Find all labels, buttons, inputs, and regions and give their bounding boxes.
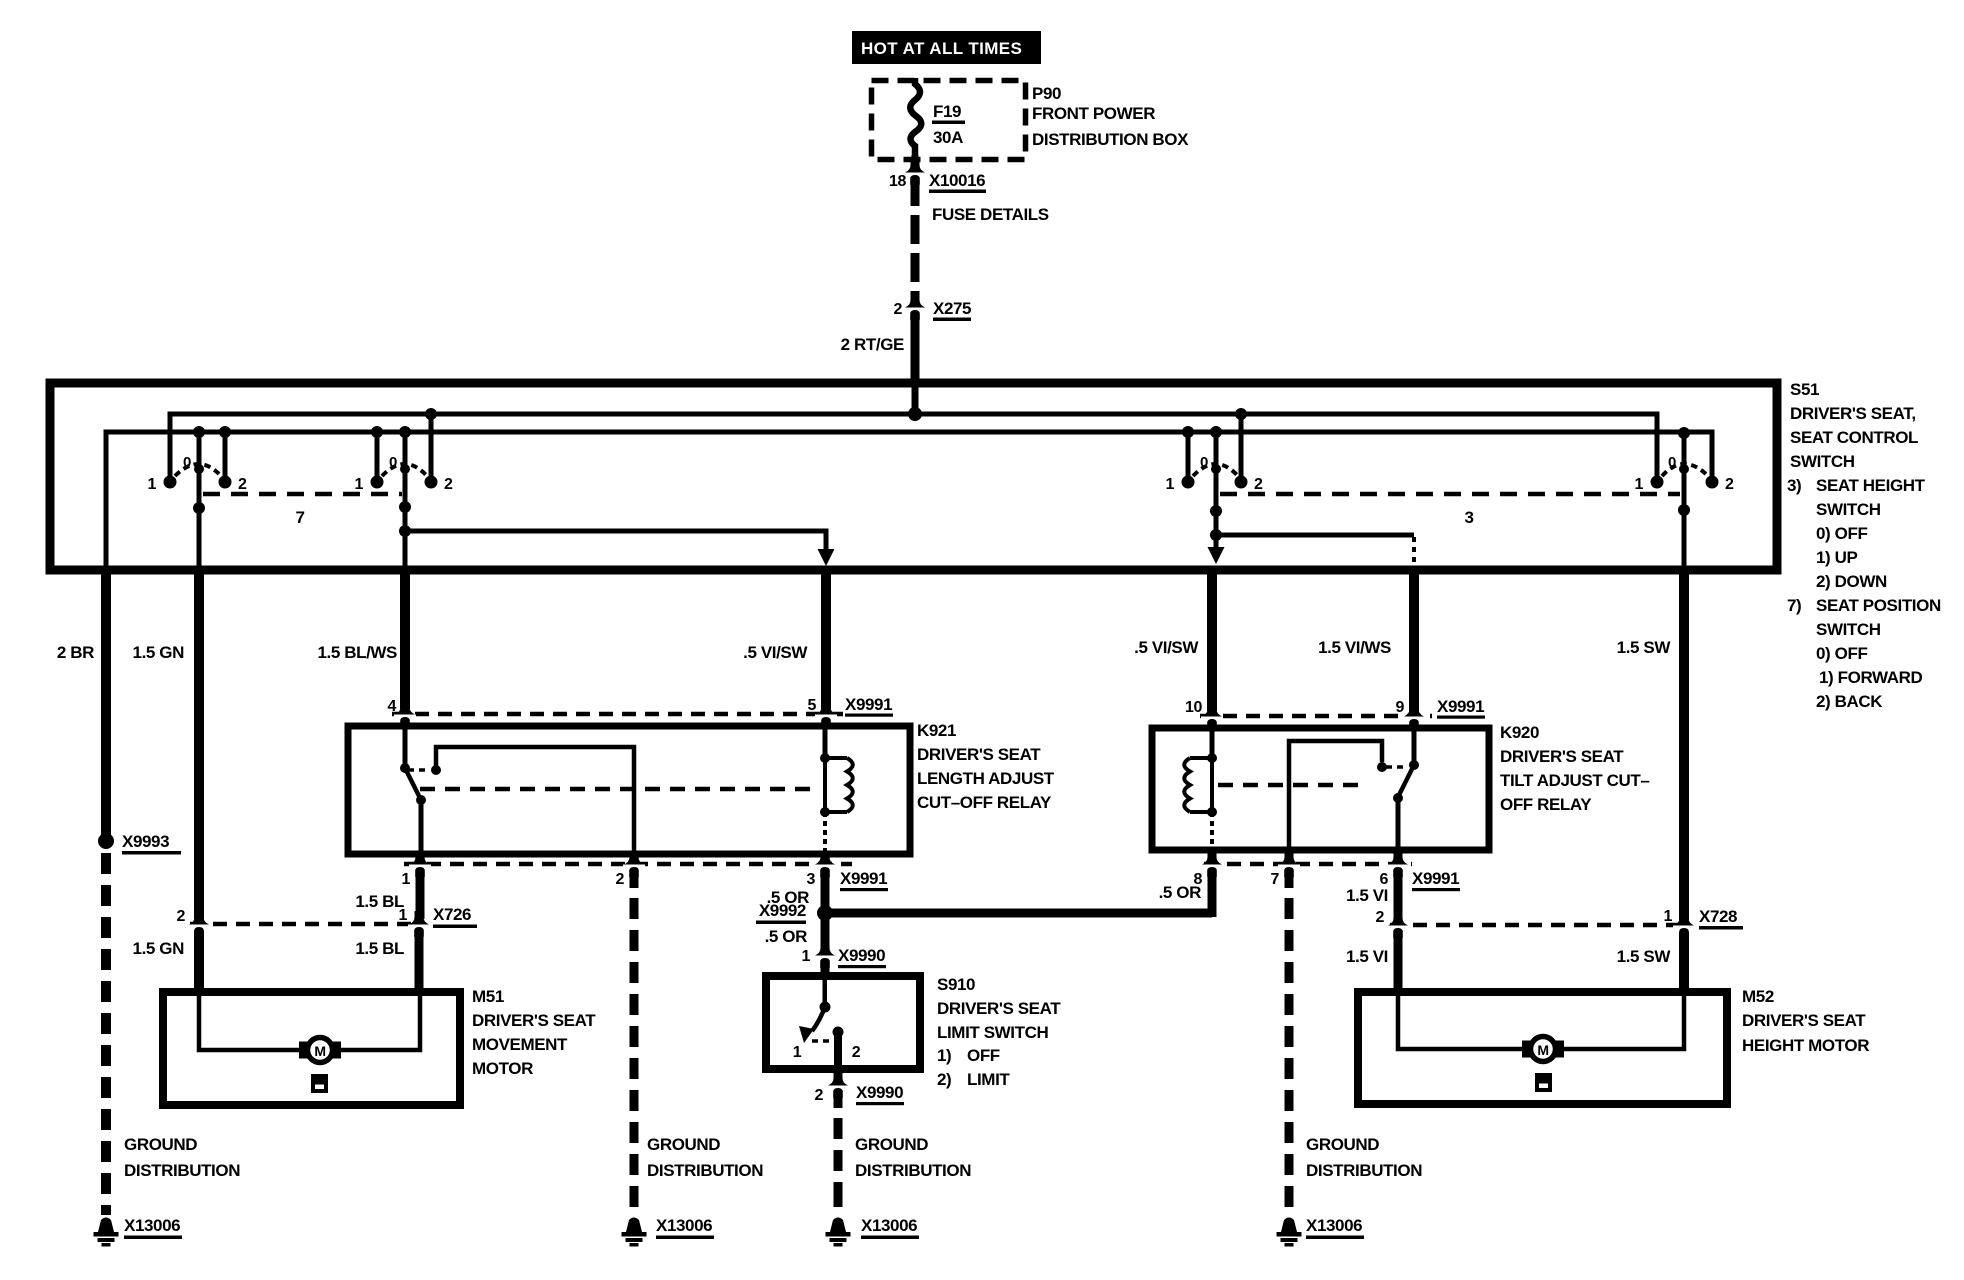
svg-text:X9991: X9991	[1412, 869, 1459, 888]
node below pivot	[193, 502, 205, 514]
svg-text:DRIVER'S SEAT: DRIVER'S SEAT	[472, 1011, 596, 1030]
wire .5 VI/SW (S51 to K920 pin 10)	[1207, 570, 1217, 711]
M52 internal wiring	[1398, 996, 1524, 1049]
svg-text:1: 1	[355, 476, 364, 493]
svg-text:2: 2	[815, 1087, 824, 1104]
wire: X10016 to X275 (dashed power feed)	[911, 177, 920, 206]
svg-text:1: 1	[1664, 908, 1673, 925]
motor M52 symbol	[1522, 1041, 1533, 1058]
wire: link to 1.5 VI/WS exit	[1216, 533, 1414, 538]
contact 2 dot	[1706, 476, 1719, 489]
svg-text:X9993: X9993	[122, 832, 169, 851]
switch S51/3 right half (seat height)	[1635, 427, 1735, 566]
svg-text:30A: 30A	[933, 128, 963, 147]
svg-text:1.5 VI: 1.5 VI	[1346, 886, 1388, 905]
connector X9993 (butt connector)	[98, 833, 114, 849]
switch S910 box	[766, 976, 920, 1069]
pin 3	[814, 851, 836, 877]
svg-text:1.5 VI: 1.5 VI	[1346, 947, 1388, 966]
contact 2 wire	[429, 414, 434, 482]
svg-text:1: 1	[399, 907, 408, 924]
svg-text:1.5 BL: 1.5 BL	[355, 892, 404, 911]
wire 1.5 BL (pin1 to X726)	[416, 874, 425, 919]
mechanical link (relay)	[420, 787, 816, 792]
svg-text:2) DOWN: 2) DOWN	[1816, 572, 1887, 591]
relay switch (NC contact)	[403, 729, 408, 768]
svg-text:0: 0	[1668, 454, 1676, 471]
svg-text:FRONT POWER: FRONT POWER	[1032, 104, 1155, 123]
svg-text:1): 1)	[937, 1046, 951, 1065]
pin 1	[1673, 912, 1695, 938]
motor M51 drive symbol	[311, 1074, 328, 1093]
pin 10	[1201, 703, 1223, 729]
fixed contact to pin 2	[408, 768, 428, 772]
motor M51 symbol	[299, 1042, 310, 1059]
svg-text:M52: M52	[1742, 987, 1774, 1006]
svg-text:DRIVER'S SEAT,: DRIVER'S SEAT,	[1790, 404, 1916, 423]
svg-text:X13006: X13006	[124, 1216, 180, 1235]
svg-text:7: 7	[1271, 871, 1280, 888]
svg-text:X9991: X9991	[845, 695, 892, 714]
svg-text:0: 0	[389, 454, 397, 471]
contact 2 wire	[1239, 414, 1244, 482]
svg-text:DISTRIBUTION BOX: DISTRIBUTION BOX	[1032, 130, 1189, 149]
pin 2	[623, 851, 645, 877]
svg-text:1) FORWARD: 1) FORWARD	[1819, 668, 1922, 687]
svg-text:DISTRIBUTION: DISTRIBUTION	[124, 1161, 240, 1180]
svg-text:GROUND: GROUND	[647, 1135, 720, 1154]
pin 1	[408, 911, 430, 937]
contact 1 dot	[1651, 476, 1664, 489]
wire 1.5 SW (X728 to M52)	[1679, 932, 1689, 992]
svg-text:SWITCH: SWITCH	[1790, 452, 1855, 471]
svg-text:LIMIT SWITCH: LIMIT SWITCH	[937, 1023, 1048, 1042]
wire: S910 to ground (dashed)	[834, 1092, 843, 1207]
connector X9990 pin 2	[834, 1069, 843, 1081]
switch throw arc	[382, 464, 427, 476]
pivot wire	[403, 432, 408, 566]
ground X13006 (K920 pin7)	[1277, 1218, 1302, 1247]
label block S51 DRIVER'S SEAT SEAT CONTROL SWITCH	[1787, 380, 1941, 711]
svg-text:SEAT CONTROL: SEAT CONTROL	[1790, 428, 1918, 447]
relay switch (NC contact)	[1412, 731, 1417, 765]
connector X9991 (top, K921)	[392, 712, 846, 717]
contact 1 dot	[164, 476, 177, 489]
wire .5 OR (X9992 to K920 pin 8)	[825, 909, 1212, 918]
contact 1 wire	[375, 432, 380, 482]
wire 1.5 BL (X726 to M51)	[415, 931, 424, 992]
svg-text:X9990: X9990	[838, 946, 885, 965]
switch unit S51 box	[50, 383, 1777, 570]
fuse box P90 (dashed)	[872, 81, 1026, 160]
ground X13006 (S910)	[826, 1218, 851, 1247]
label block K920	[1500, 723, 1649, 814]
svg-text:DRIVER'S SEAT: DRIVER'S SEAT	[937, 999, 1061, 1018]
svg-text:S51: S51	[1790, 380, 1819, 399]
svg-text:1: 1	[793, 1044, 802, 1061]
ground X13006 (2 BR)	[94, 1218, 119, 1247]
svg-text:2: 2	[894, 301, 903, 318]
svg-text:DRIVER'S SEAT: DRIVER'S SEAT	[1500, 747, 1624, 766]
mechanical coupling 7	[203, 492, 402, 497]
switch throw arc	[175, 464, 221, 476]
svg-text:X9992: X9992	[759, 901, 806, 920]
svg-text:3): 3)	[1787, 476, 1801, 495]
pin 2	[188, 911, 210, 937]
motor M52 drive symbol	[1535, 1073, 1552, 1092]
svg-text:0: 0	[1200, 454, 1208, 471]
ground X13006 (K921 pin2)	[622, 1218, 647, 1247]
svg-text:1.5 BL/WS: 1.5 BL/WS	[317, 643, 397, 662]
svg-text:0) OFF: 0) OFF	[1816, 644, 1867, 663]
svg-text:2: 2	[852, 1044, 861, 1061]
svg-text:9: 9	[1396, 699, 1405, 716]
label block M52	[1742, 987, 1869, 1055]
svg-text:2: 2	[238, 476, 247, 493]
svg-text:1.5 GN: 1.5 GN	[133, 643, 185, 662]
switch S51/7 left half (seat position)	[148, 426, 248, 566]
svg-text:HEIGHT MOTOR: HEIGHT MOTOR	[1742, 1036, 1869, 1055]
contact 1 wire	[1186, 432, 1191, 482]
connector X9991 (bottom, K920)	[1204, 862, 1412, 867]
node below pivot	[1678, 504, 1690, 516]
svg-text:.5 OR: .5 OR	[1159, 883, 1202, 902]
pin 4	[394, 701, 416, 727]
svg-text:1.5 GN: 1.5 GN	[133, 939, 185, 958]
svg-text:X9990: X9990	[856, 1083, 903, 1102]
svg-text:.5 OR: .5 OR	[765, 927, 808, 946]
svg-text:2: 2	[1376, 909, 1385, 926]
mechanical link (relay)	[1218, 783, 1366, 788]
contact 2 wire	[223, 432, 228, 482]
pin 8	[1201, 851, 1223, 877]
connector X9991 (bottom, K921)	[404, 862, 852, 867]
wire 1.5 GN (S51 to X726)	[194, 570, 204, 919]
svg-text:10: 10	[1185, 699, 1202, 716]
connector X726	[190, 922, 424, 927]
svg-text:1: 1	[148, 476, 157, 493]
wire 1.5 VI (X728 to M52)	[1394, 932, 1403, 992]
svg-text:4: 4	[388, 698, 397, 715]
svg-text:5: 5	[808, 697, 817, 714]
svg-text:.5 VI/SW: .5 VI/SW	[1134, 638, 1199, 657]
wire: fuse to X10016	[912, 155, 919, 166]
svg-text:CUT–OFF RELAY: CUT–OFF RELAY	[917, 793, 1052, 812]
connector X9990 pin 1	[814, 942, 836, 968]
svg-text:2: 2	[444, 476, 453, 493]
svg-text:SEAT POSITION: SEAT POSITION	[1816, 596, 1941, 615]
svg-text:SWITCH: SWITCH	[1816, 620, 1881, 639]
wire .5 OR (pin8 down to X9992 link)	[1208, 874, 1217, 917]
svg-text:X13006: X13006	[656, 1216, 712, 1235]
pivot wire	[1682, 432, 1687, 566]
svg-text:0) OFF: 0) OFF	[1816, 524, 1867, 543]
svg-text:GROUND: GROUND	[855, 1135, 928, 1154]
pin 5	[815, 701, 837, 727]
wire .5 OR (X9992 to X9990)	[821, 913, 830, 950]
svg-text:F19: F19	[933, 102, 961, 121]
svg-text:DRIVER'S SEAT: DRIVER'S SEAT	[1742, 1011, 1866, 1030]
svg-text:OFF: OFF	[967, 1046, 1000, 1065]
wire 1.5 VI (pin6 to X728)	[1394, 874, 1403, 920]
svg-text:DRIVER'S SEAT: DRIVER'S SEAT	[917, 745, 1041, 764]
svg-text:X726: X726	[433, 905, 471, 924]
wire .5 OR (pin3 to X9992)	[821, 874, 830, 913]
M51 internal wiring	[199, 996, 301, 1050]
svg-text:X9991: X9991	[1437, 697, 1484, 716]
fuse F19 element	[910, 78, 921, 162]
svg-text:7: 7	[295, 508, 304, 527]
wire 1.5 BL/WS (S51 to K921 pin 4)	[400, 570, 410, 709]
label block S910	[937, 975, 1061, 1089]
svg-text:SWITCH: SWITCH	[1816, 500, 1881, 519]
wire: pin7 ground lead (dashed)	[1285, 874, 1294, 1207]
svg-text:1) UP: 1) UP	[1816, 548, 1858, 567]
arrow into box edge at pivot	[1214, 535, 1219, 549]
svg-text:DISTRIBUTION: DISTRIBUTION	[647, 1161, 763, 1180]
svg-text:MOTOR: MOTOR	[472, 1059, 533, 1078]
wire 1.5 VI/WS (S51 to K920 pin 9)	[1409, 570, 1419, 711]
fixed contact to pin 7	[1289, 741, 1382, 847]
wire: X9993 to ground (dashed)	[101, 853, 111, 1215]
relay K921 box	[348, 726, 910, 854]
svg-text:0: 0	[183, 454, 191, 471]
svg-text:X13006: X13006	[1306, 1216, 1362, 1235]
S910 internal switch	[823, 980, 828, 1007]
pivot wire	[1214, 432, 1219, 535]
connector X275 pin 2	[904, 294, 926, 320]
motor M52 box	[1358, 992, 1727, 1104]
svg-text:X9991: X9991	[840, 869, 887, 888]
svg-text:X10016: X10016	[929, 171, 985, 190]
mechanical coupling 3	[1220, 492, 1680, 497]
svg-text:2: 2	[177, 908, 186, 925]
svg-text:1: 1	[402, 871, 411, 888]
wire into S910	[821, 962, 830, 978]
svg-text:LIMIT: LIMIT	[967, 1070, 1010, 1089]
svg-text:DISTRIBUTION: DISTRIBUTION	[1306, 1161, 1422, 1180]
svg-text:TILT ADJUST CUT–: TILT ADJUST CUT–	[1500, 771, 1649, 790]
pin 1	[409, 851, 431, 877]
svg-text:GROUND: GROUND	[1306, 1135, 1379, 1154]
svg-text:MOVEMENT: MOVEMENT	[472, 1035, 568, 1054]
wire 1.5 GN (X726 to M51)	[194, 931, 204, 992]
svg-text:2: 2	[1725, 476, 1734, 493]
wire: power feed drop into box	[912, 387, 919, 414]
svg-text:K921: K921	[917, 721, 956, 740]
svg-text:2: 2	[1254, 476, 1263, 493]
pin 7	[1278, 851, 1300, 877]
svg-text:X728: X728	[1699, 907, 1737, 926]
svg-text:M: M	[1537, 1042, 1548, 1058]
nodes below pivot	[1210, 505, 1222, 517]
connector X9992 (butt connector)	[817, 905, 833, 921]
relay coil K921	[823, 729, 828, 758]
arrow into box edge	[818, 549, 835, 566]
svg-text:18: 18	[889, 173, 906, 190]
nodes below pivot	[399, 501, 411, 513]
svg-text:2: 2	[616, 871, 625, 888]
svg-text:M: M	[314, 1043, 325, 1059]
svg-text:7): 7)	[1787, 596, 1801, 615]
relay K920 box	[1152, 728, 1489, 850]
svg-text:GROUND: GROUND	[124, 1135, 197, 1154]
power source banner HOT AT ALL TIMES	[852, 31, 1041, 64]
svg-text:X275: X275	[933, 299, 971, 318]
svg-text:1: 1	[802, 948, 811, 965]
wire: X275 to S51 box	[911, 316, 920, 387]
bus line A (power, with end drops to SW1 contact1 / SW4 contact1)	[170, 414, 1657, 482]
svg-text:SEAT HEIGHT: SEAT HEIGHT	[1816, 476, 1926, 495]
svg-text:1.5 SW: 1.5 SW	[1617, 638, 1672, 657]
svg-text:3: 3	[807, 871, 816, 888]
wire 2 BR (ground lead from S51)	[101, 570, 111, 835]
relay coil K920	[1210, 731, 1215, 758]
switch S51/3 left half (seat height)	[1166, 408, 1415, 566]
wire: pin2 ground lead (dashed)	[630, 874, 639, 1207]
connector X9991 (top, K920)	[1200, 714, 1432, 719]
pin 6	[1387, 851, 1409, 877]
svg-text:P90: P90	[1032, 84, 1061, 103]
svg-text:1: 1	[1635, 476, 1644, 493]
svg-text:1.5 BL: 1.5 BL	[355, 939, 404, 958]
connector X728	[1390, 923, 1690, 928]
svg-text:2 RT/GE: 2 RT/GE	[841, 335, 904, 354]
svg-text:DISTRIBUTION: DISTRIBUTION	[855, 1161, 971, 1180]
label block K921	[917, 721, 1055, 812]
svg-text:2 BR: 2 BR	[57, 643, 94, 662]
pivot wire	[197, 432, 202, 566]
svg-text:M51: M51	[472, 987, 504, 1006]
svg-text:HOT AT ALL TIMES: HOT AT ALL TIMES	[861, 39, 1022, 58]
svg-text:3: 3	[1464, 508, 1473, 527]
svg-text:2): 2)	[937, 1070, 951, 1089]
svg-text:K920: K920	[1500, 723, 1539, 742]
wire .5 VI/SW (S51 to K921 pin 5)	[821, 570, 831, 709]
switch S51/7 right half (seat position)	[355, 408, 835, 566]
svg-text:.5 VI/SW: .5 VI/SW	[743, 643, 808, 662]
switch throw arc	[1193, 464, 1238, 476]
wire 1.5 SW (S51 to X728)	[1679, 570, 1689, 920]
svg-text:OFF RELAY: OFF RELAY	[1500, 795, 1592, 814]
svg-text:S910: S910	[937, 975, 975, 994]
switch throw arc	[1662, 464, 1708, 476]
svg-text:1.5 VI/WS: 1.5 VI/WS	[1318, 638, 1391, 657]
bus line B (ground, left drop to 2BR exit, right drop to SW4 contact2)	[106, 432, 1712, 566]
svg-text:1.5 SW: 1.5 SW	[1617, 947, 1672, 966]
wire: link to .5 VI/SW exit	[405, 531, 826, 551]
label block M51	[472, 987, 596, 1078]
pin 2	[1387, 912, 1409, 938]
node: power junction on bus A	[908, 407, 922, 421]
svg-text:1: 1	[1166, 476, 1175, 493]
pin 9	[1403, 703, 1425, 729]
svg-text:2) BACK: 2) BACK	[1816, 692, 1883, 711]
svg-text:X13006: X13006	[861, 1216, 917, 1235]
svg-text:LENGTH ADJUST: LENGTH ADJUST	[917, 769, 1055, 788]
connector X10016 pin 18	[904, 159, 926, 185]
svg-text:FUSE DETAILS: FUSE DETAILS	[932, 205, 1049, 224]
motor M51 box	[163, 992, 460, 1105]
